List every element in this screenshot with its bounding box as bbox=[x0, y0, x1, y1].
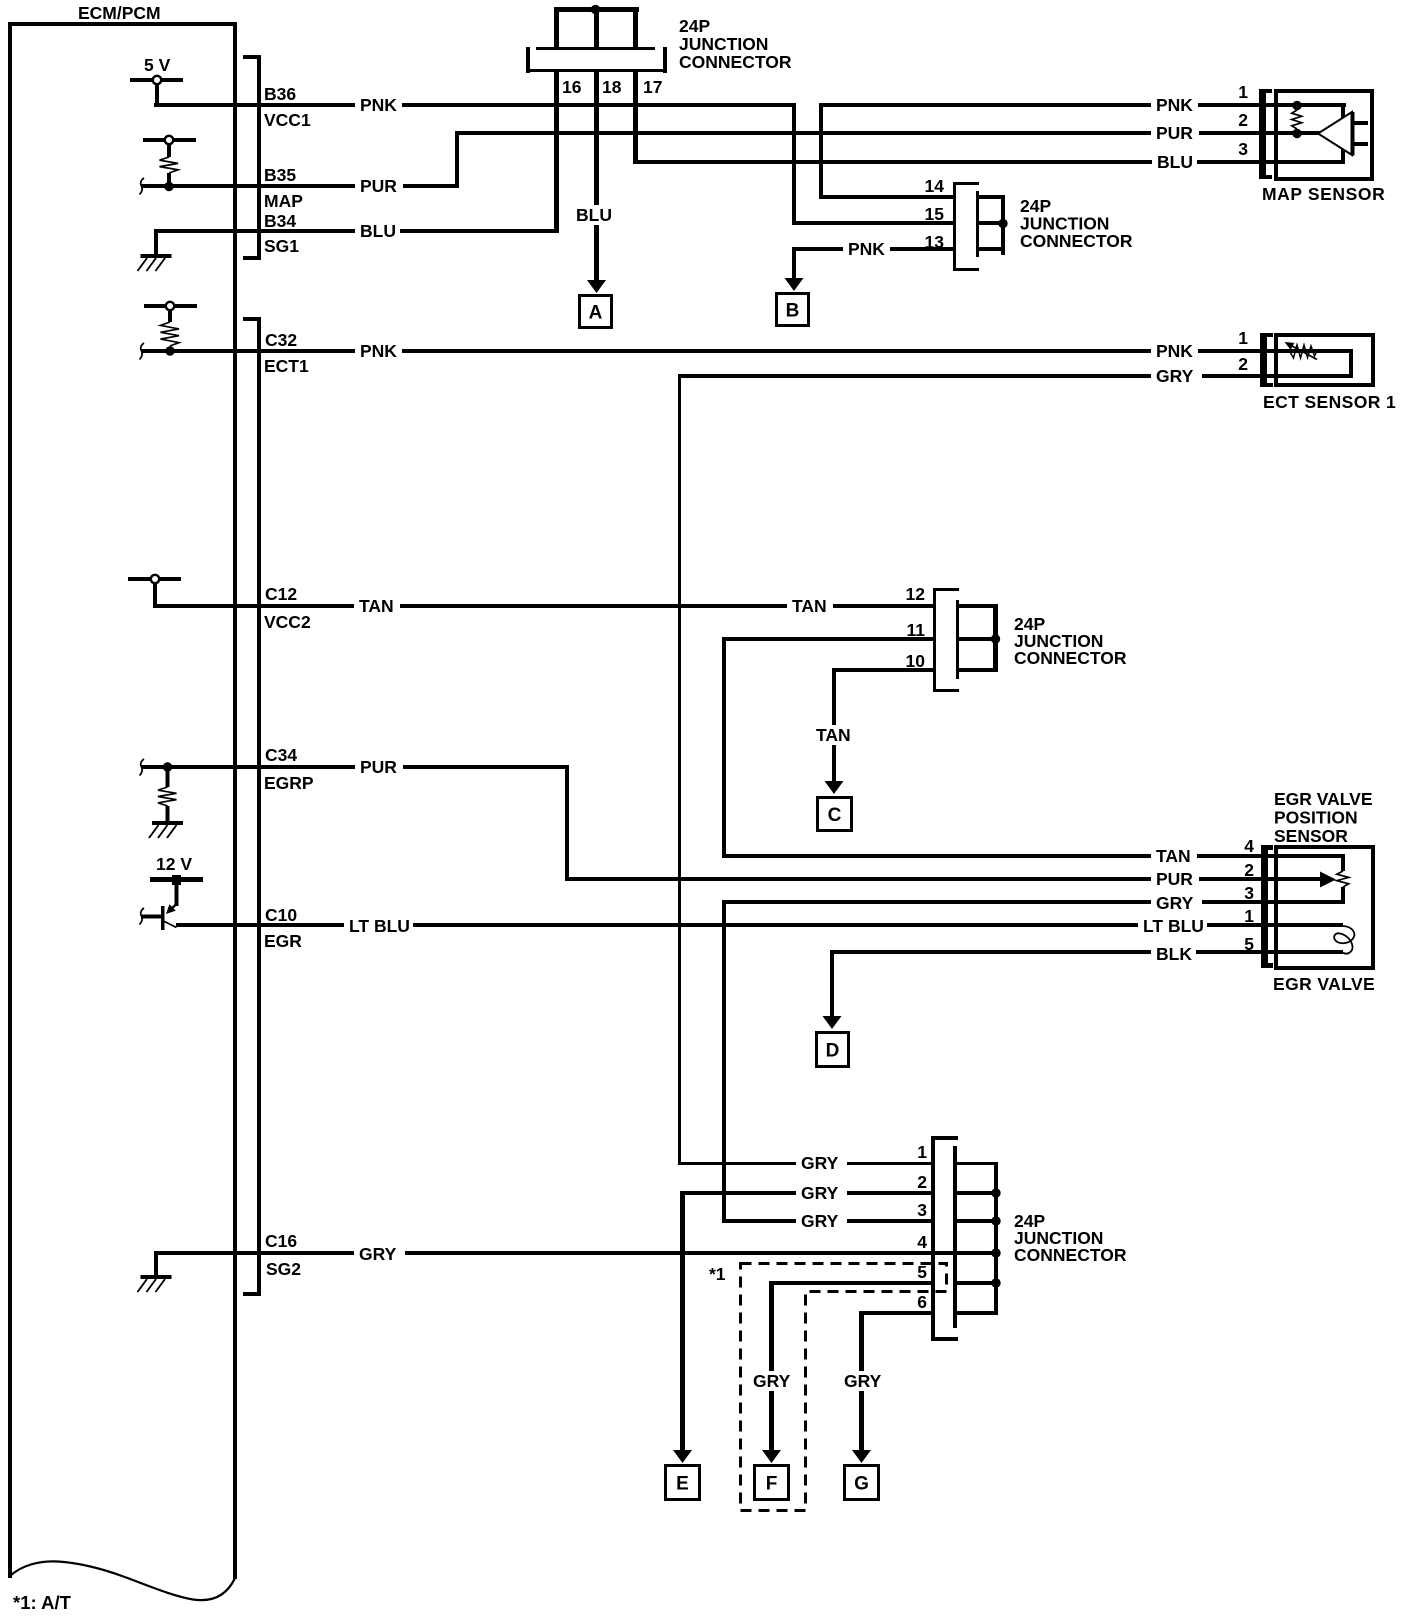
arrow to node C bbox=[825, 781, 844, 794]
wire GRY row from EGR pin 3 bbox=[722, 900, 1345, 904]
arrow to node G bbox=[852, 1450, 871, 1463]
wire pin6 drop to G arrow bbox=[859, 1311, 864, 1450]
svg-text:1: 1 bbox=[1238, 328, 1248, 348]
ECM/PCM module box bbox=[8, 22, 237, 1579]
24P junction connector 2 bracket bbox=[953, 182, 979, 271]
junction dot node C32 bbox=[165, 346, 174, 355]
svg-text:14: 14 bbox=[925, 176, 945, 196]
wire label GRY to G bbox=[839, 1371, 890, 1391]
pin SG1 label bbox=[264, 236, 299, 256]
svg-text:12 V: 12 V bbox=[156, 854, 192, 874]
24P junction connector 1 body (top) bbox=[526, 47, 667, 73]
wire resistor stem upper B35 bbox=[167, 144, 171, 157]
dashed A/T option outline bbox=[741, 1264, 947, 1511]
svg-text:4: 4 bbox=[917, 1232, 927, 1252]
wire junction1 pin18 vertical to A arrow bbox=[594, 72, 599, 280]
junction connector 4 stub 4 bbox=[957, 1251, 994, 1255]
junction connector 2 bus bbox=[1001, 195, 1005, 255]
wire corner down at x792 bbox=[792, 103, 796, 225]
pin C12 label bbox=[265, 584, 297, 604]
ECM/PCM label bbox=[78, 3, 161, 23]
wire C34 PUR vertical bbox=[565, 765, 569, 881]
pin B36 label bbox=[264, 84, 296, 104]
junction connector 4 stub 1 bbox=[957, 1162, 994, 1165]
svg-text:PUR: PUR bbox=[360, 757, 397, 777]
svg-text:1: 1 bbox=[917, 1142, 927, 1162]
svg-text:ECT1: ECT1 bbox=[264, 356, 309, 376]
wire resistor stem lower C34 bbox=[166, 806, 170, 821]
pin 14 label bbox=[925, 176, 945, 196]
MAP sensor internal rail bbox=[1341, 103, 1345, 164]
wire resistor stem upper C32 bbox=[168, 310, 172, 322]
wire ECT GRY vertical down bbox=[678, 374, 681, 1165]
pin MAP label bbox=[264, 191, 303, 211]
wire label GRY ECT near bbox=[1151, 366, 1202, 386]
svg-text:3: 3 bbox=[1238, 139, 1248, 159]
svg-text:EGR VALVE: EGR VALVE bbox=[1274, 789, 1373, 809]
wire label GRY pin1 bbox=[796, 1153, 847, 1173]
ECT sensor 1 box bbox=[1276, 335, 1373, 385]
pin C32 label bbox=[265, 330, 297, 350]
ECT pin 1 number bbox=[1238, 328, 1248, 348]
pin 6 label bbox=[917, 1292, 927, 1312]
svg-text:C12: C12 bbox=[265, 584, 297, 604]
svg-text:*1: A/T: *1: A/T bbox=[13, 1592, 72, 1613]
svg-text:CONNECTOR: CONNECTOR bbox=[1020, 231, 1133, 251]
op-amp U1 triangle MAP bbox=[1318, 112, 1352, 155]
5V supply terminal circle bbox=[153, 76, 161, 84]
junction connector 3 bus dot bbox=[991, 634, 1000, 643]
wire label BLK EGR5 bbox=[1151, 944, 1196, 964]
transistor Q1 base lead bbox=[141, 915, 161, 919]
svg-text:PNK: PNK bbox=[1156, 95, 1193, 115]
svg-text:C10: C10 bbox=[265, 905, 297, 925]
svg-text:B: B bbox=[786, 301, 800, 322]
wire pin5 drop to F arrow bbox=[769, 1281, 774, 1450]
pull-up terminal circle C32 bbox=[166, 302, 174, 310]
junction connector 2 bus dot bbox=[998, 219, 1007, 228]
wire label BLU B34 bbox=[355, 221, 400, 241]
junction connector 4 stub 3 bbox=[957, 1219, 994, 1223]
svg-text:SENSOR: SENSOR bbox=[1274, 826, 1348, 846]
resistor R-C32 squiggle bbox=[161, 322, 180, 346]
pin VCC2 label bbox=[264, 612, 311, 632]
junction connector 3 stub 11 bbox=[959, 637, 997, 641]
resistor R-B35 squiggle bbox=[160, 157, 179, 173]
svg-text:CONNECTOR: CONNECTOR bbox=[679, 52, 792, 72]
node E box bbox=[666, 1466, 700, 1500]
wire BLU row to MAP pin 3 bbox=[633, 160, 1345, 164]
svg-text:A: A bbox=[589, 303, 603, 324]
wire C34 PUR to corner bbox=[141, 765, 569, 769]
svg-text:BLU: BLU bbox=[576, 205, 612, 225]
ECT sensor connector bracket bbox=[1260, 333, 1273, 387]
24P junction connector 4 bracket bbox=[931, 1136, 958, 1341]
wire junction 3 pin 10 bbox=[832, 668, 936, 672]
wire ECT internal loop right arm bbox=[1349, 349, 1353, 378]
svg-text:CONNECTOR: CONNECTOR bbox=[1014, 1245, 1127, 1265]
junction connector 1 stub 17 upper bbox=[633, 12, 638, 48]
svg-text:GRY: GRY bbox=[1156, 893, 1194, 913]
svg-text:GRY: GRY bbox=[844, 1371, 882, 1391]
EGR potentiometer wiper arrow bbox=[1320, 872, 1336, 888]
pin ECT1 label bbox=[264, 356, 309, 376]
resistor EGR potentiometer squiggle bbox=[1337, 871, 1349, 887]
svg-text:GRY: GRY bbox=[801, 1183, 839, 1203]
EGR valve connector bracket bbox=[1261, 845, 1273, 968]
ground symbol SG1 drop wire bbox=[154, 229, 158, 255]
wire label TAN to C bbox=[811, 725, 857, 745]
arrow to node A bbox=[587, 280, 606, 293]
24P JUNCTION CONNECTOR label 1 bbox=[679, 16, 792, 72]
svg-text:CONNECTOR: CONNECTOR bbox=[1014, 648, 1127, 668]
wire label PUR EGR2 bbox=[1151, 869, 1199, 889]
junction connector 1 bus dot bbox=[591, 5, 600, 14]
MAP SENSOR label bbox=[1262, 184, 1385, 204]
wire-end curl C34 bbox=[140, 759, 145, 776]
svg-text:JUNCTION: JUNCTION bbox=[679, 34, 768, 54]
ECT pin 2 number bbox=[1238, 354, 1248, 374]
wire resistor stem lower B35 bbox=[167, 173, 171, 184]
svg-text:PNK: PNK bbox=[848, 239, 885, 259]
wire junction 4 pin 2 GRY bbox=[681, 1191, 935, 1195]
svg-text:17: 17 bbox=[643, 77, 662, 97]
svg-text:GRY: GRY bbox=[359, 1244, 397, 1264]
svg-text:GRY: GRY bbox=[801, 1153, 839, 1173]
wire BLK drop to D arrow bbox=[830, 950, 834, 1016]
svg-text:16: 16 bbox=[562, 77, 582, 97]
pin 1 label bbox=[917, 1142, 927, 1162]
EGR VALVE label bbox=[1273, 974, 1375, 994]
wire B36 PNK to corner bbox=[154, 103, 796, 107]
wire junction 4 pin 1 GRY bbox=[678, 1162, 935, 1165]
transistor Q1 base bar bbox=[161, 906, 165, 930]
junction connector 4 inner bar bbox=[953, 1146, 957, 1328]
MAP internal junction dot pin2 bbox=[1292, 129, 1301, 138]
svg-text:2: 2 bbox=[1238, 110, 1248, 130]
pin C34 label bbox=[265, 745, 297, 765]
wire junction 4 pin 3 GRY bbox=[722, 1219, 935, 1223]
node B box bbox=[777, 294, 809, 326]
svg-text:LT BLU: LT BLU bbox=[349, 916, 410, 936]
svg-text:5: 5 bbox=[1244, 934, 1254, 954]
resistor R-C34 squiggle bbox=[158, 787, 177, 806]
wire label PUR B35 bbox=[355, 176, 403, 196]
wire pin2 drop to E arrow bbox=[680, 1191, 685, 1450]
pin 18 label bbox=[602, 77, 622, 97]
junction connector 2 stub 14 bbox=[979, 195, 1005, 199]
node F box bbox=[755, 1466, 789, 1500]
wire label GRY C16 bbox=[354, 1244, 405, 1264]
svg-text:5 V: 5 V bbox=[144, 55, 171, 75]
arrow to node D bbox=[823, 1016, 842, 1029]
wire MAP PNK row bbox=[819, 103, 1346, 107]
svg-text:3: 3 bbox=[1244, 883, 1254, 903]
wire label GRY EGR3 bbox=[1151, 893, 1202, 913]
pin B35 label bbox=[264, 165, 296, 185]
svg-text:D: D bbox=[826, 1041, 840, 1062]
24P JUNCTION CONNECTOR label 3 bbox=[1014, 614, 1127, 668]
wire label GRY pin3 bbox=[796, 1211, 847, 1231]
EGR position sensor rail lower bbox=[1341, 887, 1345, 904]
svg-text:C16: C16 bbox=[265, 1231, 297, 1251]
svg-text:F: F bbox=[766, 1474, 778, 1495]
pin C10 label bbox=[265, 905, 297, 925]
pin 16 label bbox=[562, 77, 582, 97]
svg-text:12: 12 bbox=[906, 584, 926, 604]
svg-text:VCC2: VCC2 bbox=[264, 612, 311, 632]
wire label PNK ECT near bbox=[1151, 341, 1198, 361]
wire label BLU to A bbox=[571, 205, 616, 225]
svg-text:BLU: BLU bbox=[360, 221, 396, 241]
wire PUR row to MAP pin 2 bbox=[455, 131, 1320, 135]
pin 5 label bbox=[917, 1262, 927, 1282]
ECM/PCM box torn wavy bottom edge bbox=[9, 1561, 235, 1600]
wire label PNK MAP1 bbox=[1151, 95, 1198, 115]
junction connector 3 stub 12 bbox=[959, 604, 997, 608]
svg-text:SG1: SG1 bbox=[264, 236, 299, 256]
footnote *1: A/T bbox=[13, 1592, 72, 1613]
svg-text:PNK: PNK bbox=[360, 95, 397, 115]
ECM pin-group bracket C (C32-C16) bbox=[243, 317, 261, 1296]
wire ECT GRY row bbox=[678, 374, 1352, 378]
pin 10 label bbox=[906, 651, 926, 671]
svg-text:1: 1 bbox=[1244, 906, 1254, 926]
EGR pin 5 number bbox=[1244, 934, 1254, 954]
junction connector 4 stub 6 bbox=[957, 1311, 994, 1315]
svg-text:PUR: PUR bbox=[1156, 869, 1193, 889]
5V supply symbol at B36 bbox=[130, 55, 183, 82]
junction connector 4 bus dots bbox=[991, 1188, 1000, 1287]
pull-up resistor top bar at B35 bbox=[143, 138, 196, 142]
ECT SENSOR 1 label bbox=[1263, 392, 1396, 412]
arrow to node B bbox=[785, 278, 804, 291]
svg-text:EGRP: EGRP bbox=[264, 773, 314, 793]
wire BLK row from EGR pin 5 bbox=[830, 950, 1343, 954]
svg-text:EGR VALVE: EGR VALVE bbox=[1273, 974, 1375, 994]
svg-text:POSITION: POSITION bbox=[1274, 808, 1358, 828]
svg-text:E: E bbox=[676, 1474, 689, 1495]
wire label PUR C34 bbox=[355, 757, 403, 777]
EGR VALVE POSITION SENSOR label bbox=[1274, 789, 1373, 846]
wire into junction 2 pin 14 bbox=[819, 195, 956, 199]
wire label GRY to F bbox=[748, 1371, 799, 1391]
wire label TAN junction3 bbox=[787, 596, 833, 616]
svg-text:LT BLU: LT BLU bbox=[1143, 916, 1204, 936]
pull-up resistor top bar at C32 bbox=[144, 304, 197, 308]
svg-text:2: 2 bbox=[917, 1172, 927, 1192]
pin 3 label bbox=[917, 1200, 927, 1220]
wire junction 4 pin 6 GRY bbox=[859, 1311, 935, 1315]
MAP internal junction dot pin1 bbox=[1292, 101, 1301, 110]
svg-text:B36: B36 bbox=[264, 84, 296, 104]
svg-text:PUR: PUR bbox=[360, 176, 397, 196]
pin C16 label bbox=[265, 1231, 297, 1251]
svg-text:4: 4 bbox=[1244, 836, 1254, 856]
thermistor ECT arrow bbox=[1285, 342, 1318, 360]
svg-text:GRY: GRY bbox=[801, 1211, 839, 1231]
ground SG1 bbox=[138, 254, 172, 271]
svg-text:PNK: PNK bbox=[360, 341, 397, 361]
EGR pin 3 number bbox=[1244, 883, 1254, 903]
svg-text:MAP SENSOR: MAP SENSOR bbox=[1262, 184, 1385, 204]
EGR pin 2 number bbox=[1244, 860, 1254, 880]
pin 13 label bbox=[925, 232, 945, 252]
svg-text:ECM/PCM: ECM/PCM bbox=[78, 3, 161, 23]
5V supply terminal circle C12 bbox=[151, 575, 159, 583]
op-amp output stub upper bbox=[1354, 121, 1368, 125]
wire C32 PNK row to ECT bbox=[141, 349, 1352, 353]
arrow to node F bbox=[762, 1450, 781, 1463]
wire corner up at x819 bbox=[819, 103, 823, 199]
wire C12 TAN row to junction 3 bbox=[153, 604, 936, 608]
wire 12V drop to transistor bbox=[175, 882, 179, 906]
wire junction 4 pin 5 GRY bbox=[769, 1281, 935, 1285]
wire label LT BLU C10 bbox=[344, 916, 413, 936]
svg-text:C34: C34 bbox=[265, 745, 297, 765]
svg-text:BLK: BLK bbox=[1156, 944, 1192, 964]
svg-text:18: 18 bbox=[602, 77, 622, 97]
svg-text:EGR: EGR bbox=[264, 931, 302, 951]
inductor EGR valve solenoid coil bbox=[1334, 926, 1354, 954]
EGR valve box bbox=[1276, 847, 1373, 968]
svg-text:2: 2 bbox=[1244, 860, 1254, 880]
wire junction1 pin17 vertical bbox=[633, 72, 638, 164]
EGR position sensor rail upper bbox=[1341, 854, 1345, 871]
junction connector 1 stub 16 upper bbox=[554, 12, 559, 48]
thermistor ECT zigzag bbox=[1290, 345, 1317, 358]
5V supply symbol at C12 bar bbox=[128, 577, 181, 581]
pin 4 label bbox=[917, 1232, 927, 1252]
transistor Q1 collector lead bbox=[163, 921, 177, 928]
wire B34 BLU to junction 1 bbox=[154, 229, 559, 233]
wire label BLU MAP3 bbox=[1152, 152, 1197, 172]
24P junction connector 1 top bus bbox=[554, 7, 639, 12]
wire PUR row to EGR pin 2 bbox=[565, 877, 1320, 881]
junction dot node C34 bbox=[163, 762, 172, 771]
wire into junction 2 pin 15 bbox=[792, 221, 956, 225]
junction dot node B35 bbox=[164, 182, 173, 191]
wire GRY vertical down to junction 4 bbox=[722, 900, 726, 1223]
ground symbol SG2 drop wire bbox=[154, 1251, 158, 1277]
transistor Q1 emitter with arrow bbox=[166, 904, 177, 914]
wire PUR jog up bbox=[455, 131, 459, 188]
svg-text:BLU: BLU bbox=[1157, 152, 1193, 172]
wire label TAN C12 bbox=[354, 596, 400, 616]
svg-text:GRY: GRY bbox=[1156, 366, 1194, 386]
svg-text:PNK: PNK bbox=[1156, 341, 1193, 361]
pin 2 label bbox=[917, 1172, 927, 1192]
pin 12 label bbox=[906, 584, 926, 604]
junction connector 2 stub 13 bbox=[979, 247, 1005, 251]
pin 15 label bbox=[925, 204, 945, 224]
wire label PNK to B bbox=[843, 239, 890, 259]
wire-end curl Q1 base bbox=[140, 908, 145, 925]
wire pin11 vertical down bbox=[722, 637, 726, 858]
junction connector 2 stub 15 bbox=[979, 221, 1005, 225]
resistor MAP internal squiggle bbox=[1292, 110, 1302, 129]
pin VCC1 label bbox=[264, 110, 311, 130]
24P junction connector 3 bracket bbox=[933, 588, 959, 692]
pin EGRP label bbox=[264, 773, 314, 793]
wire label PNK B36 bbox=[355, 95, 402, 115]
EGR pin 4 number bbox=[1244, 836, 1254, 856]
pull-up terminal circle B35 bbox=[165, 136, 173, 144]
svg-text:TAN: TAN bbox=[359, 596, 394, 616]
MAP pin 3 number bbox=[1238, 139, 1248, 159]
wire pin13 drop to B arrow bbox=[792, 251, 796, 280]
svg-text:24P: 24P bbox=[679, 16, 710, 36]
svg-text:ECT SENSOR 1: ECT SENSOR 1 bbox=[1263, 392, 1396, 412]
MAP sensor box bbox=[1276, 91, 1372, 179]
junction connector 1 stub 18 upper bbox=[594, 12, 599, 48]
wire 5V drop to B36 bbox=[155, 84, 159, 104]
svg-text:C32: C32 bbox=[265, 330, 297, 350]
svg-text:PUR: PUR bbox=[1156, 123, 1193, 143]
EGR pin 1 number bbox=[1244, 906, 1254, 926]
node C box bbox=[818, 798, 852, 831]
pin 17 label bbox=[643, 77, 662, 97]
wire C16 GRY row to junction 4 pin 4 bbox=[154, 1251, 956, 1255]
wire junction1 pin16 vertical bbox=[554, 72, 559, 233]
svg-text:3: 3 bbox=[917, 1200, 927, 1220]
junction connector 4 bus bbox=[994, 1162, 998, 1315]
node A box bbox=[580, 296, 612, 328]
wire resistor stem upper C34 bbox=[166, 771, 170, 787]
op-amp base bar bbox=[1351, 112, 1355, 156]
wire label GRY pin2 bbox=[796, 1183, 847, 1203]
node G box bbox=[845, 1466, 879, 1500]
wire 5V drop to C12 bbox=[153, 583, 157, 606]
node D box bbox=[817, 1033, 849, 1067]
MAP sensor connector bracket bbox=[1259, 89, 1272, 179]
op-amp output stub lower bbox=[1354, 142, 1368, 146]
footnote marker *1 bbox=[709, 1264, 726, 1284]
svg-text:G: G bbox=[854, 1474, 869, 1495]
ECM pin-group bracket B (B36-B34) bbox=[243, 55, 261, 260]
wire label LT BLU EGR1 bbox=[1138, 916, 1207, 936]
wire label TAN EGR4 bbox=[1151, 846, 1197, 866]
svg-text:*1: *1 bbox=[709, 1264, 726, 1284]
svg-text:B34: B34 bbox=[264, 211, 296, 231]
arrow to node E bbox=[673, 1450, 692, 1463]
svg-text:GRY: GRY bbox=[753, 1371, 791, 1391]
wire C10 LT BLU row to EGR pin 1 bbox=[176, 923, 1343, 927]
svg-text:2: 2 bbox=[1238, 354, 1248, 374]
svg-text:1: 1 bbox=[1238, 82, 1248, 102]
junction connector 3 inner bar bbox=[956, 600, 959, 679]
wire-end curl C32 bbox=[140, 343, 145, 360]
pin EGR label bbox=[264, 931, 302, 951]
wire TAN row to EGR pin 4 bbox=[722, 854, 1345, 858]
svg-text:TAN: TAN bbox=[792, 596, 827, 616]
24P JUNCTION CONNECTOR label 2 bbox=[1020, 196, 1133, 251]
MAP pin 1 number bbox=[1238, 82, 1248, 102]
wire B35 PUR to jog bbox=[141, 184, 459, 188]
svg-text:6: 6 bbox=[917, 1292, 927, 1312]
wire junction 3 pin 11 bbox=[722, 637, 936, 641]
pin 11 label bbox=[907, 620, 926, 640]
MAP pin 2 number bbox=[1238, 110, 1248, 130]
ground SG2 bbox=[138, 1275, 172, 1292]
junction connector 2 inner bar bbox=[976, 191, 979, 257]
svg-text:TAN: TAN bbox=[1156, 846, 1191, 866]
pin B34 label bbox=[264, 211, 296, 231]
24P JUNCTION CONNECTOR label 4 bbox=[1014, 1211, 1127, 1265]
svg-text:VCC1: VCC1 bbox=[264, 110, 311, 130]
junction connector 3 bus bbox=[993, 604, 998, 672]
svg-text:C: C bbox=[828, 805, 842, 826]
